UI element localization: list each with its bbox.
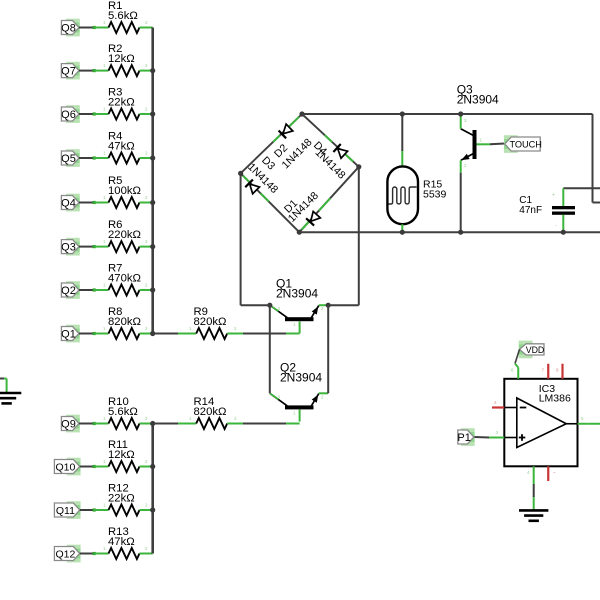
svg-text:1: 1 bbox=[293, 410, 296, 415]
bridge edge wire bottom-right bbox=[299, 167, 359, 232]
wire R2 to bus bbox=[140, 70, 153, 72]
net label Q8 bbox=[66, 19, 80, 37]
svg-text:Q12: Q12 bbox=[55, 549, 75, 561]
svg-text:2: 2 bbox=[145, 459, 148, 464]
svg-text:4: 4 bbox=[527, 470, 530, 475]
svg-text:-: - bbox=[555, 223, 557, 229]
svg-text:8: 8 bbox=[556, 368, 559, 373]
wire Q3 to R6 bbox=[79, 246, 94, 248]
transistor Q2 2N3904 bbox=[285, 405, 314, 409]
svg-text:2: 2 bbox=[145, 195, 148, 200]
wire R14 to transistor base bbox=[227, 423, 243, 425]
junction C1 bottom bbox=[561, 230, 566, 235]
wire Q1 collector to Q2 collector bbox=[269, 305, 271, 393]
svg-text:470kΩ: 470kΩ bbox=[108, 272, 141, 284]
junction bus R10/R14 bbox=[150, 421, 155, 426]
svg-text:1: 1 bbox=[103, 326, 106, 331]
svg-text:Q3: Q3 bbox=[61, 242, 76, 254]
transistor Q1 2N3904 bbox=[285, 317, 314, 321]
svg-text:3: 3 bbox=[278, 306, 281, 311]
wire Q1 to R8 bbox=[79, 333, 94, 335]
svg-text:1: 1 bbox=[103, 283, 106, 288]
wire R15 to bottom bus bbox=[401, 224, 403, 232]
svg-text:12kΩ: 12kΩ bbox=[108, 449, 135, 461]
svg-text:22kΩ: 22kΩ bbox=[108, 96, 135, 108]
svg-text:2: 2 bbox=[145, 546, 148, 551]
wire D2 anode segment bbox=[288, 117, 298, 127]
ground (IC3) bbox=[519, 509, 548, 512]
IC3 pin 5 output stub bbox=[578, 423, 589, 425]
svg-text:Q11: Q11 bbox=[56, 505, 75, 517]
diode D1 1N4148 bbox=[306, 211, 321, 226]
wire R9 to transistor base bbox=[227, 333, 243, 335]
wire Q10 to R11 bbox=[80, 466, 94, 468]
bridge edge wire top-left bbox=[241, 114, 302, 173]
junction bus row R8 bbox=[150, 331, 155, 336]
junction bus row R5 bbox=[150, 200, 155, 205]
wire bus to R9 bbox=[153, 333, 178, 335]
svg-text:2: 2 bbox=[145, 416, 148, 421]
net label TOUCH bbox=[504, 135, 518, 153]
resistor R3 22kΩ bbox=[109, 109, 140, 120]
wire Q6 to R3 bbox=[79, 113, 94, 115]
junction bus row R12 bbox=[150, 507, 155, 512]
wire D3 anode segment bbox=[261, 193, 269, 201]
bus wire lower resistor ladder bbox=[151, 424, 154, 554]
wire Q12 to R13 bbox=[80, 553, 94, 555]
svg-text:2: 2 bbox=[145, 283, 148, 288]
resistor R7 470kΩ bbox=[109, 285, 140, 296]
wire Q3 base to TOUCH bbox=[477, 143, 491, 145]
net label Q7 bbox=[66, 62, 80, 80]
svg-text:1: 1 bbox=[189, 326, 192, 331]
svg-text:~: ~ bbox=[553, 470, 556, 475]
svg-text:2: 2 bbox=[145, 326, 148, 331]
wire C1 bottom to bus bbox=[562, 215, 564, 232]
junction Q1 emitter bbox=[326, 303, 331, 308]
wire right edge down bbox=[592, 114, 594, 203]
svg-text:Q2: Q2 bbox=[61, 285, 76, 297]
svg-text:P1: P1 bbox=[457, 432, 470, 444]
wire R6 to bus bbox=[140, 246, 153, 248]
junction Q1 collector bbox=[267, 303, 272, 308]
svg-text:5539: 5539 bbox=[423, 189, 447, 201]
wire bus to R14 bbox=[153, 423, 178, 425]
junction bridge top corner bbox=[299, 111, 304, 116]
svg-text:2: 2 bbox=[234, 416, 237, 421]
wire R4 to bus bbox=[140, 157, 153, 159]
diode D4 1N4148 bbox=[333, 144, 348, 159]
IC3 pin 6 stub bbox=[517, 368, 519, 379]
op-amp minus input bbox=[520, 407, 527, 409]
resistor R5 100kΩ bbox=[109, 197, 140, 208]
resistor R13 47kΩ bbox=[109, 548, 140, 559]
svg-text:12kΩ: 12kΩ bbox=[108, 53, 135, 65]
diode D2 1N4148 bbox=[279, 124, 294, 139]
svg-text:5: 5 bbox=[581, 416, 584, 421]
junction Q3 collector bbox=[458, 111, 463, 116]
wire R3 to bus bbox=[140, 113, 153, 115]
svg-text:1: 1 bbox=[103, 546, 106, 551]
diode D3 1N4148 bbox=[245, 180, 260, 195]
wire R10 to bus bbox=[140, 423, 153, 425]
resistor R4 47kΩ bbox=[109, 153, 140, 164]
junction R15 top bbox=[400, 111, 405, 116]
junction bus row R3 bbox=[150, 111, 155, 116]
wire P1 to IC3 pin 3 bbox=[475, 436, 490, 439]
wire D2 cathode segment bbox=[273, 135, 280, 142]
capacitor C1 47nF bbox=[552, 206, 575, 209]
wire D1 anode segment bbox=[319, 198, 330, 210]
wire IC3 pin 4 to ground bbox=[533, 481, 535, 484]
svg-text:2: 2 bbox=[464, 163, 467, 168]
wire Q1 emitter to Q2 emitter bbox=[327, 305, 329, 393]
svg-text:47kΩ: 47kΩ bbox=[108, 536, 135, 548]
op-amp plus input bbox=[519, 437, 526, 439]
wire D1 cathode segment bbox=[302, 221, 310, 230]
wire VDD to IC3 pin 6 bbox=[515, 349, 520, 363]
svg-text:1: 1 bbox=[103, 195, 106, 200]
wire D3 cathode segment bbox=[243, 176, 250, 183]
svg-text:Q1: Q1 bbox=[61, 329, 76, 341]
op-amp output line bbox=[566, 423, 577, 425]
wire C1 top to right edge bbox=[563, 187, 600, 189]
svg-text:1: 1 bbox=[103, 20, 106, 25]
svg-text:820kΩ: 820kΩ bbox=[194, 316, 227, 328]
svg-text:3: 3 bbox=[464, 118, 467, 123]
net label VDD bbox=[519, 341, 533, 359]
svg-text:+: + bbox=[552, 193, 555, 199]
wire R7 to bus bbox=[140, 289, 153, 291]
svg-text:47kΩ: 47kΩ bbox=[108, 140, 135, 152]
net label Q10 bbox=[67, 458, 81, 476]
bridge edge wire top-right bbox=[302, 114, 359, 167]
wire top bus to R15 bbox=[401, 114, 403, 151]
svg-text:5.6kΩ: 5.6kΩ bbox=[108, 10, 138, 22]
bridge edge wire bottom-left bbox=[241, 173, 300, 232]
svg-text:1: 1 bbox=[103, 416, 106, 421]
wire top bus bbox=[302, 113, 593, 115]
svg-text:1: 1 bbox=[293, 322, 296, 327]
svg-text:TOUCH: TOUCH bbox=[509, 140, 542, 150]
svg-text:2: 2 bbox=[145, 107, 148, 112]
svg-text:1: 1 bbox=[103, 459, 106, 464]
junction R15 bottom bbox=[400, 230, 405, 235]
wire Q9 to R10 bbox=[79, 423, 94, 425]
wire Q2 to R7 bbox=[79, 289, 94, 291]
svg-text:Q10: Q10 bbox=[55, 462, 75, 474]
wire Q7 to R2 bbox=[79, 70, 94, 72]
wire R1 to bus bbox=[140, 27, 153, 29]
svg-text:1: 1 bbox=[103, 151, 106, 156]
svg-text:2: 2 bbox=[145, 503, 148, 508]
svg-text:Q4: Q4 bbox=[61, 198, 76, 210]
svg-text:2: 2 bbox=[145, 151, 148, 156]
wire IC3 output to right edge bbox=[589, 423, 600, 425]
svg-text:2: 2 bbox=[234, 326, 237, 331]
junction bus row R7 bbox=[150, 287, 155, 292]
junction bridge left corner bbox=[238, 171, 243, 176]
wire R5 to bus bbox=[140, 202, 153, 204]
svg-text:3: 3 bbox=[496, 430, 499, 435]
svg-text:Q8: Q8 bbox=[61, 23, 76, 35]
svg-text:1: 1 bbox=[480, 138, 483, 143]
svg-text:7: 7 bbox=[542, 368, 545, 373]
svg-text:6: 6 bbox=[511, 368, 514, 373]
svg-text:2: 2 bbox=[145, 20, 148, 25]
net label Q4 bbox=[66, 194, 80, 212]
junction bus row R6 bbox=[150, 244, 155, 249]
net label Q11 bbox=[67, 501, 81, 519]
net label Q12 bbox=[67, 545, 81, 563]
wire Q8 to R1 bbox=[79, 27, 94, 29]
junction bus row R2 bbox=[150, 68, 155, 73]
resistor R8 820kΩ bbox=[109, 328, 140, 339]
transistor Q3 2N3904 bbox=[473, 130, 477, 159]
svg-text:820kΩ: 820kΩ bbox=[194, 406, 227, 418]
wire D4 cathode segment bbox=[325, 135, 332, 142]
wire R11 to bus bbox=[140, 466, 153, 468]
junction bridge bottom corner bbox=[297, 230, 302, 235]
resistor R9 820kΩ bbox=[196, 328, 227, 339]
svg-text:Q7: Q7 bbox=[61, 66, 76, 78]
resistor R11 12kΩ bbox=[109, 461, 140, 472]
IC3 pin 3 stub bbox=[489, 437, 504, 439]
svg-text:2: 2 bbox=[321, 394, 324, 399]
wire D4 anode segment bbox=[339, 149, 353, 162]
junction Q3 emitter bus bbox=[458, 230, 463, 235]
svg-text:5.6kΩ: 5.6kΩ bbox=[108, 406, 138, 418]
svg-text:2N3904: 2N3904 bbox=[280, 371, 322, 385]
svg-text:VDD: VDD bbox=[526, 345, 545, 355]
svg-text:3: 3 bbox=[278, 394, 281, 399]
svg-text:2N3904: 2N3904 bbox=[457, 93, 499, 107]
wire to ground (left edge) bbox=[0, 378, 4, 380]
IC3 unconnected pin stub top 2 bbox=[561, 364, 563, 379]
net label P1 bbox=[461, 428, 475, 446]
IC3 pin 4 stub bbox=[533, 466, 535, 481]
svg-text:2: 2 bbox=[145, 63, 148, 68]
svg-text:1: 1 bbox=[103, 239, 106, 244]
wire Q11 to R12 bbox=[80, 509, 94, 511]
svg-text:100kΩ: 100kΩ bbox=[108, 185, 141, 197]
svg-text:820kΩ: 820kΩ bbox=[108, 316, 141, 328]
svg-text:1: 1 bbox=[103, 503, 106, 508]
svg-text:1: 1 bbox=[103, 107, 106, 112]
wire R12 to bus bbox=[140, 509, 153, 511]
svg-text:1: 1 bbox=[189, 416, 192, 421]
svg-text:1: 1 bbox=[103, 63, 106, 68]
wire Q4 to R5 bbox=[79, 202, 94, 204]
net label Q2 bbox=[66, 281, 80, 299]
wire bridge left corner down to collectors bbox=[240, 173, 242, 305]
wire Q3 emitter to bottom bus bbox=[460, 173, 462, 233]
wire bridge right corner down to emitters bbox=[358, 167, 360, 305]
wire Q5 to R4 bbox=[79, 157, 94, 159]
svg-text:22kΩ: 22kΩ bbox=[108, 492, 135, 504]
wire bottom bus bbox=[299, 231, 600, 233]
net label Q6 bbox=[66, 105, 80, 123]
svg-text:Q5: Q5 bbox=[61, 153, 76, 165]
IC3 unconnected pin 2 stub bbox=[492, 406, 504, 408]
svg-text:LM386: LM386 bbox=[539, 393, 571, 405]
resistor R2 12kΩ bbox=[109, 65, 140, 76]
junction bus row R11 bbox=[150, 464, 155, 469]
resistor R12 22kΩ bbox=[109, 505, 140, 516]
junction bus row R4 bbox=[150, 155, 155, 160]
resistor R14 820kΩ bbox=[196, 418, 227, 429]
svg-text:2N3904: 2N3904 bbox=[276, 287, 318, 301]
net label Q1 bbox=[66, 325, 80, 343]
wire R13 to bus bbox=[140, 553, 153, 555]
svg-text:2: 2 bbox=[145, 239, 148, 244]
IC3 unconnected pin stub top 1 bbox=[547, 364, 549, 379]
svg-text:2: 2 bbox=[494, 400, 497, 405]
bus wire upper resistor ladder bbox=[151, 28, 154, 334]
resistor R1 5.6kΩ bbox=[109, 22, 140, 33]
svg-text:2: 2 bbox=[321, 306, 324, 311]
resistor R6 220kΩ bbox=[109, 241, 140, 252]
op-amp IC3 LM386 bbox=[504, 379, 577, 467]
resistor R10 5.6kΩ bbox=[109, 418, 140, 429]
IC3 unconnected pin stub bottom bbox=[547, 466, 549, 481]
svg-text:220kΩ: 220kΩ bbox=[108, 229, 141, 241]
svg-text:47nF: 47nF bbox=[519, 205, 542, 216]
junction bridge right corner bbox=[356, 164, 361, 169]
svg-text:Q9: Q9 bbox=[61, 419, 76, 431]
ground (left) bbox=[0, 392, 21, 395]
wire R8 to bus bbox=[140, 333, 153, 335]
net label Q5 bbox=[66, 149, 80, 167]
net label Q9 bbox=[66, 415, 80, 433]
net label Q3 bbox=[66, 238, 80, 256]
svg-text:Q6: Q6 bbox=[61, 109, 76, 121]
photoresistor R15 5539 bbox=[387, 166, 418, 224]
